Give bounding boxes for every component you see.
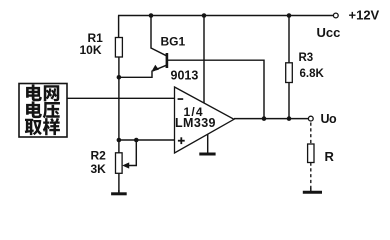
terminal: +12V open circle xyxy=(333,13,338,18)
wire: rail down to LM339 V+ pin xyxy=(203,16,205,104)
junction: base-drive tap on output xyxy=(262,116,267,121)
svg-text:3K: 3K xyxy=(91,162,107,176)
wire: +12V supply rail xyxy=(118,15,334,17)
wire: rail corner down to R1 xyxy=(118,16,120,38)
wire: R2 bottom lead xyxy=(118,173,120,192)
junction: R3 bottom tap on output xyxy=(287,116,292,121)
ground: below LM339 xyxy=(199,153,215,156)
wire: non-inverting input wire xyxy=(119,139,175,141)
svg-text:LM339: LM339 xyxy=(175,116,216,130)
wire: R1 bottom lead xyxy=(118,57,120,77)
junction: R2 top xyxy=(117,138,122,143)
wire: LM339 output to Uo terminal xyxy=(234,118,309,120)
potentiometer R2 body xyxy=(116,153,123,174)
wire: emitter wire from node to BG1 xyxy=(119,71,152,78)
wire: box output to LM339 inverting input xyxy=(67,97,175,99)
svg-text:R: R xyxy=(325,149,335,164)
block: mains voltage sampling box xyxy=(19,84,67,138)
svg-text:9013: 9013 xyxy=(171,69,199,83)
label: inverting input minus sign xyxy=(178,98,184,100)
potentiometer R2 wiper arrow xyxy=(122,140,136,169)
svg-text:BG1: BG1 xyxy=(161,35,186,49)
svg-text:R3: R3 xyxy=(299,52,314,64)
junction: R2 wiper tap xyxy=(134,138,139,143)
ground: below R2 xyxy=(118,190,120,194)
junction: BG1 collector tap on rail xyxy=(149,13,154,18)
junction: R3 top tap on rail xyxy=(287,13,292,18)
wire: dashed from R down to ground xyxy=(310,163,312,190)
svg-text:6.8K: 6.8K xyxy=(300,68,325,80)
resistor R (load) xyxy=(308,144,314,163)
svg-text:R2: R2 xyxy=(91,149,107,163)
wire: dashed from Uo down to R xyxy=(310,123,312,145)
wire: LM339 ground pin stem xyxy=(207,134,209,154)
resistor R1 xyxy=(115,38,122,58)
label: non-inverting input plus sign xyxy=(178,137,185,144)
wire: BG1 collector up to rail xyxy=(150,16,152,49)
node: R1/BG1-emitter/divider junction xyxy=(117,75,122,80)
resistor R3 xyxy=(286,63,293,83)
wire: R3 bottom lead xyxy=(288,83,290,119)
svg-text:+12V: +12V xyxy=(349,8,380,23)
wire: R3 top lead xyxy=(288,16,290,63)
junction: LM339 V+ tap on rail xyxy=(202,13,207,18)
label: 电网电压取样 (3 rows) xyxy=(25,84,60,135)
transistor Q BG1 (9013 NPN) xyxy=(151,48,168,71)
svg-text:Uo: Uo xyxy=(321,112,338,126)
wire: BG1 base to LM339 output node xyxy=(168,60,264,118)
ground: below R xyxy=(310,188,312,193)
svg-text:Ucc: Ucc xyxy=(317,25,341,40)
wire: divider vertical (node to + input net) xyxy=(118,77,120,140)
wire: R2 top lead xyxy=(118,140,120,153)
svg-text:10K: 10K xyxy=(80,43,102,57)
terminal: Uo open circle xyxy=(308,116,313,121)
op-amp U1 1/4 LM339 comparator triangle xyxy=(175,87,235,153)
